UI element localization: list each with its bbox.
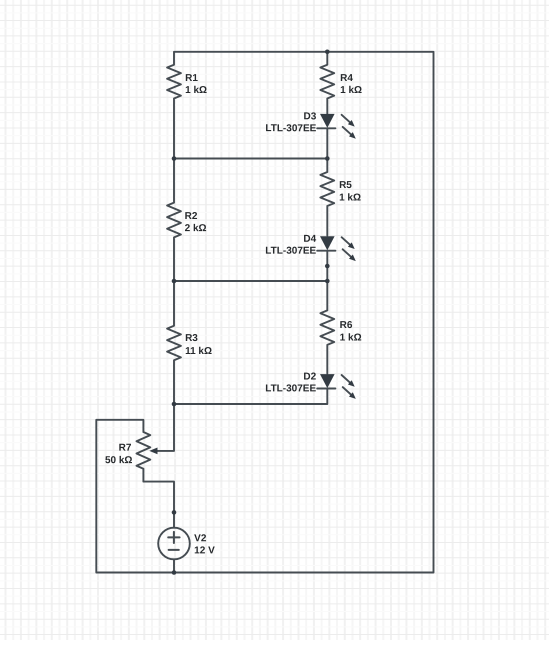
svg-text:1 kΩ: 1 kΩ [185,85,207,96]
svg-text:LTL-307EE: LTL-307EE [265,383,316,394]
svg-text:LTL-307EE: LTL-307EE [265,246,316,257]
svg-text:11 kΩ: 11 kΩ [185,346,212,357]
svg-text:R2: R2 [185,211,198,222]
svg-text:1 kΩ: 1 kΩ [340,85,362,96]
svg-text:1 kΩ: 1 kΩ [340,333,362,344]
svg-text:2 kΩ: 2 kΩ [185,223,207,234]
svg-text:R5: R5 [339,180,352,191]
svg-text:R4: R4 [340,73,353,84]
svg-text:R7: R7 [119,443,132,454]
svg-text:R1: R1 [185,73,198,84]
svg-text:D2: D2 [303,372,316,383]
svg-text:V2: V2 [194,533,207,544]
svg-text:D4: D4 [303,234,316,245]
svg-text:12 V: 12 V [194,545,215,556]
svg-text:1 kΩ: 1 kΩ [339,193,361,204]
svg-text:50 kΩ: 50 kΩ [105,455,132,466]
svg-text:R6: R6 [340,320,353,331]
svg-text:R3: R3 [185,333,198,344]
svg-text:D3: D3 [304,111,317,122]
svg-text:LTL-307EE: LTL-307EE [265,123,316,134]
